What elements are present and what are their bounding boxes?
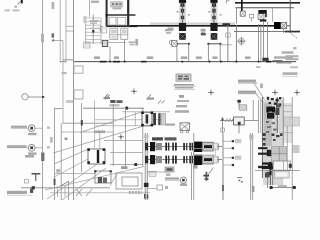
riser dark bar x241.8 <box>241 0 243 12</box>
wire vertical x94.6 <box>94 100 96 148</box>
transformer T1 plan box with corner pads <box>141 111 153 126</box>
elevation mid dark cluster y133-140 <box>272 133 283 141</box>
wire drop x236.6 <box>236 8 238 24</box>
north arrow cluster top-left <box>5 0 23 11</box>
dimension label between towers right <box>201 29 206 34</box>
pothead component with X <box>180 123 190 133</box>
title block label <box>176 74 191 81</box>
wire vertical x227.9 with box <box>220 25 232 62</box>
wire horizontal y31.6 <box>234 31 300 33</box>
stairs hatch block <box>83 15 101 45</box>
wire grid vertical x113.2 <box>112 104 114 166</box>
hatched bar below base <box>129 191 142 194</box>
disconnector tower Q2 at x214 <box>207 0 221 62</box>
tick marks x158-168 y101 <box>158 101 165 104</box>
callout arrow label 2 <box>238 91 264 104</box>
corner mark x226 top <box>226 1 230 4</box>
busbar main y24.7 <box>130 25 274 27</box>
equipment room box with label <box>111 2 123 10</box>
radiator dark column 2 <box>158 113 160 125</box>
wire drop x124.6 to bus <box>124 40 126 62</box>
callout grounding circle G1 <box>11 125 50 135</box>
wire stub x239 top with cap <box>237 100 246 110</box>
stacked labels x166 y170 <box>166 170 171 176</box>
wire ground line y187.8 <box>21 186 110 189</box>
dimension label between towers left <box>165 29 174 45</box>
wire drop x272.5 <box>272 8 274 22</box>
dark label row y137-141 <box>94 131 177 141</box>
label text left of plan <box>90 20 99 24</box>
cable fan diagonal d1 <box>80 112 142 133</box>
component small box x249 <box>249 14 253 21</box>
cable fan diagonal d4 <box>54 158 90 177</box>
wire vertical x61.2 lower <box>60 123 62 200</box>
tick mark x64 y137 <box>65 138 68 141</box>
text rows above title block <box>175 100 189 113</box>
wall horizontal y26 <box>107 25 138 27</box>
wire feed x99.8 to transformer <box>99 131 101 149</box>
switch S1 box with X <box>240 11 245 16</box>
wire x258.6 upper <box>259 100 261 133</box>
cabinet box right <box>117 17 126 25</box>
pothead label x165 <box>165 124 175 126</box>
double rail x250.7/x252.7 <box>249 133 254 200</box>
wire y173.5 segment <box>55 173 95 175</box>
wire grid y125.8 <box>95 125 152 127</box>
cable fan diagonal d6 <box>62 168 106 200</box>
bracket with dots x237 y177 <box>237 178 243 183</box>
motor box M1 <box>234 117 245 133</box>
cabinet boxes right of cross <box>273 161 292 178</box>
note text far right <box>256 66 298 88</box>
wire y170.6 bottom right <box>255 170 300 172</box>
rung dash connectors dark <box>258 147 272 168</box>
elevation block inner gray column <box>264 103 272 146</box>
bushing chain assembly CT2 <box>145 155 222 165</box>
callout circle C0 on y97 line <box>22 94 44 100</box>
wire grid vertical x135.2 <box>134 112 136 127</box>
disconnector tower Q1 at x182.5 <box>176 0 190 62</box>
wire grid y111.8 <box>122 111 170 113</box>
tiny vertical label x135 <box>135 39 138 46</box>
survey cross marks <box>118 88 300 140</box>
wire corridor wall x60 <box>59 0 61 63</box>
fence line y192.8 with ticks <box>50 189 150 197</box>
cable fan diagonal d8 <box>110 174 117 186</box>
radiator dark column 1 <box>153 113 156 125</box>
elevation dark squares <box>267 150 273 169</box>
elevation left edge dark marks <box>263 133 266 146</box>
wire main wall x73.5 full height <box>73 0 75 200</box>
wire pair x263.4 x267.6 to bus <box>262 22 268 62</box>
transformer T2 plan box A <box>87 148 105 164</box>
wire grid y152.6 <box>110 152 143 154</box>
corner bracket mark <box>100 27 103 32</box>
dark label text x110 y100 <box>110 100 123 106</box>
double wire x145.2/x147.2 <box>144 133 149 200</box>
elevation top dark fittings <box>267 97 282 106</box>
wall vertical thick x106.6 <box>106 0 108 27</box>
elevation gray cell grid <box>272 147 287 162</box>
tower side tick marks <box>177 11 222 16</box>
elevation bottom legs <box>270 166 272 186</box>
bus dark segment x223 <box>223 23 231 26</box>
diagonal ramp x60-69 <box>60 181 69 200</box>
wire vertical x290 top <box>289 0 291 33</box>
portal frame leg x193.8 <box>193 133 195 200</box>
cabinet box left <box>109 17 116 25</box>
door opening rect lower <box>74 90 83 99</box>
wire pair x258.4 x260.9 to bus <box>258 24 261 62</box>
small box x149 y171 <box>149 171 156 176</box>
small table symbol x83-90 <box>84 42 91 48</box>
heater wire y120.6 <box>220 119 258 123</box>
wire x253.2 upper <box>252 100 254 121</box>
wall vertical thick x128.2 <box>127 0 129 27</box>
anchor cross dark <box>262 162 274 175</box>
antenna T symbol <box>25 174 41 183</box>
label box TP <box>165 167 174 172</box>
wire vertical x236.4 <box>235 25 237 62</box>
cable fan diagonal d2 <box>53 127 142 154</box>
label text top of plan <box>91 1 99 3</box>
callout circle with text bottom <box>165 177 187 189</box>
tiny label x167 y27 <box>168 28 174 31</box>
ladder rungs with pads <box>223 139 241 166</box>
bus lower long line y61.6 <box>60 60 296 62</box>
ladder rail x223 <box>222 133 224 200</box>
wire grid y108.2 <box>83 107 144 110</box>
wire vertical x283.5 short <box>283 28 285 33</box>
elevation right rungs <box>283 106 292 133</box>
wire drop x110 to bus <box>109 47 111 62</box>
marks below chain x193 <box>193 165 198 169</box>
wire grid vertical x142.8 <box>142 108 144 166</box>
wire y42.6 from JB1 <box>108 42 126 44</box>
wire light line y28 left of plan <box>90 27 106 29</box>
label text y155 <box>25 155 34 158</box>
transformer T2 plan box B <box>94 170 112 183</box>
wire y188.6 right of base <box>147 185 162 190</box>
elevation block gray column <box>263 100 283 185</box>
door opening rect upper <box>74 66 83 73</box>
label y166 x121 <box>121 166 128 169</box>
terminal block black square <box>274 22 281 29</box>
cable fan diagonal d7 <box>45 167 144 191</box>
junction box JB1 <box>102 40 107 46</box>
wire y172 right of base <box>147 171 170 173</box>
fan symbol circle with cross <box>237 37 245 46</box>
equipment base inner rect <box>122 177 138 186</box>
bus light band y21.3 <box>150 23 235 25</box>
label bracket marks right of wire <box>129 41 136 45</box>
feeder line y7.8 <box>236 7 295 9</box>
level mark cluster x147 <box>147 95 155 100</box>
wire column line B x54.5 <box>50 2 60 200</box>
elevation right gray boxes <box>284 117 300 153</box>
wire grid vertical x125.6 <box>125 108 127 166</box>
wire stub x89.5 top <box>89 0 91 17</box>
cable fan diagonal d3 <box>54 149 88 164</box>
wire grid y164.6 <box>110 163 143 166</box>
radiator gray box <box>161 113 166 125</box>
cable fan diagonal d5 <box>47 162 100 199</box>
feeder line top y2.8 <box>235 2 300 4</box>
elevation mid dark rail x277 <box>276 97 278 133</box>
paper background <box>0 0 300 200</box>
callout arrow label 1 <box>238 80 265 100</box>
elevation block right gray column <box>283 103 292 143</box>
title underline text rows <box>173 84 196 98</box>
connector frame between chains <box>194 149 216 156</box>
dashed leader diagonal top right <box>282 27 298 39</box>
portal frame leg x191.6 <box>191 152 193 200</box>
wire x267.6 bottom <box>265 172 270 188</box>
elevation dark core <box>266 105 280 119</box>
tiny label x61 y72 <box>62 72 67 74</box>
labels above lower bus <box>94 55 299 60</box>
wire vertical x81.6 <box>81 103 83 172</box>
equipment base outer rect <box>116 173 142 189</box>
benchmark symbol x205 <box>204 168 214 181</box>
elevation block outer rails <box>262 97 292 200</box>
bushing chain assembly CT1 <box>145 142 222 152</box>
wall horizontal y15 <box>107 14 136 16</box>
switch box with X <box>281 22 291 28</box>
breaker assembly dark x258-268 <box>258 10 267 22</box>
switch box with X between towers <box>172 41 177 47</box>
level mark cluster x104 <box>104 94 111 100</box>
wire corridor wall x66 <box>66 0 74 63</box>
wire step x55-74 <box>55 100 113 123</box>
note text right column <box>274 47 297 64</box>
tiny marks x56 y169 <box>56 169 60 173</box>
ladder top arrow <box>221 117 225 133</box>
wire grid y140.6 <box>104 140 143 142</box>
elevation texture dashes <box>266 121 276 133</box>
dark mark between towers y33 <box>201 33 206 35</box>
callout grounding circle G2 <box>7 144 50 154</box>
cell grid below wall <box>102 28 128 39</box>
wire grid y119.8 <box>95 119 165 121</box>
wire horizontal y132 <box>61 131 113 133</box>
wire column line A x42.5 <box>41 0 44 200</box>
foundation line y187.6 <box>270 185 296 189</box>
node junction dot x53 y40.5 <box>52 39 74 123</box>
bottom-left label row <box>7 189 33 196</box>
